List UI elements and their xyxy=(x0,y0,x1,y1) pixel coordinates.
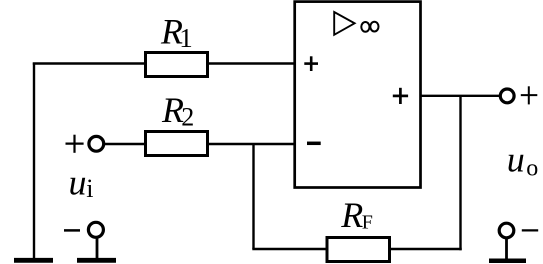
label R2 xyxy=(161,90,194,132)
label uo xyxy=(507,140,539,182)
wire: ui+ terminal to R2 left xyxy=(105,143,147,145)
infinity symbol xyxy=(361,22,378,32)
op-amp ideal gain triangle xyxy=(334,12,354,35)
wire: R1 right to op-amp noninverting input xyxy=(209,62,296,64)
plus polarity label of uo terminal xyxy=(521,86,538,104)
ground bar under ui- terminal xyxy=(77,258,116,263)
label RF xyxy=(340,195,373,235)
op-amp inverting input pin label - xyxy=(307,142,321,146)
op-amp output polarity label + xyxy=(393,88,408,104)
wire: RF right to feedback right vertical xyxy=(389,248,462,250)
wire: left vertical rail from top wire to ground xyxy=(33,63,35,259)
ground bar under left rail xyxy=(14,258,53,263)
wire: feedback bottom left horizontal to RF left xyxy=(252,248,328,250)
wire: op-amp output to uo+ terminal xyxy=(420,95,501,97)
op-amp U1 body xyxy=(295,2,421,188)
plus polarity label of ui terminal xyxy=(66,135,84,153)
terminal circle + of uo xyxy=(500,89,514,103)
terminal circle + of ui xyxy=(89,136,104,151)
minus polarity label of uo terminal xyxy=(522,229,538,231)
terminal circle - of ui xyxy=(88,222,103,237)
ground bar under uo- terminal xyxy=(489,258,526,263)
resistor R1 xyxy=(146,53,208,77)
svg-text:F: F xyxy=(362,212,373,234)
svg-text:u: u xyxy=(69,163,87,203)
wire: ui- terminal stem to ground bar xyxy=(96,237,99,259)
label R1 xyxy=(160,12,193,54)
wire: uo- terminal stem to ground bar xyxy=(505,238,508,260)
svg-text:2: 2 xyxy=(181,102,194,131)
op-amp noninverting input pin label + xyxy=(304,56,318,71)
wire: R2 right to op-amp inverting input xyxy=(209,143,296,145)
minus polarity label of ui terminal xyxy=(64,229,80,232)
svg-text:i: i xyxy=(86,174,93,203)
svg-text:u: u xyxy=(507,140,525,180)
terminal circle - of uo xyxy=(499,223,514,238)
label ui xyxy=(69,163,94,204)
wire: top horizontal to R1 left xyxy=(33,62,146,64)
svg-text:R: R xyxy=(340,195,363,235)
resistor R2 xyxy=(146,132,208,156)
resistor RF xyxy=(327,238,390,262)
wire: feedback right vertical up to output node xyxy=(459,96,461,250)
svg-text:o: o xyxy=(526,156,538,182)
svg-text:1: 1 xyxy=(179,23,193,53)
wire: feedback left vertical from inverting node down xyxy=(252,144,254,249)
